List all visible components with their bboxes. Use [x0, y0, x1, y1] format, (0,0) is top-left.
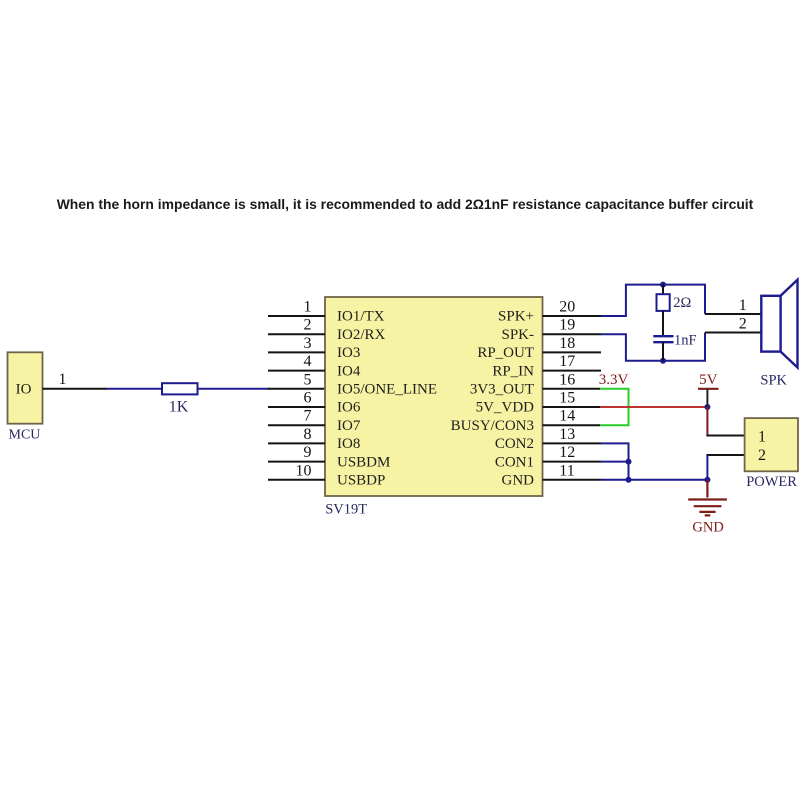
- svg-text:1: 1: [758, 429, 766, 446]
- wire speaker pin 1 stub: [705, 313, 761, 315]
- IC U1 SV19T body: [325, 297, 543, 496]
- svg-text:1K: 1K: [169, 399, 189, 416]
- wire MCU pin stub: [43, 388, 108, 390]
- wire pin 9 stub: [268, 461, 325, 463]
- svg-text:1nF: 1nF: [674, 333, 697, 349]
- svg-text:POWER: POWER: [746, 474, 797, 490]
- svg-text:2: 2: [739, 316, 747, 333]
- junction 5V node: [704, 404, 710, 410]
- svg-text:6: 6: [304, 390, 312, 407]
- wire 5V node down to POWER pin 1: [706, 407, 708, 436]
- svg-text:10: 10: [296, 462, 312, 479]
- svg-text:5V: 5V: [699, 372, 718, 388]
- svg-text:IO8: IO8: [337, 436, 360, 452]
- wire net 3V3 green bracket (pin 16 to pin 14): [600, 389, 629, 425]
- wire pin 19 stub: [543, 333, 602, 335]
- junction SPK- rail: [660, 358, 666, 364]
- wire net CON2 (pin 13 down): [601, 443, 629, 479]
- wire pin 15 stub: [543, 406, 601, 408]
- wire net SPK+ (pin 20 to top rail to speaker pin 1): [601, 285, 705, 316]
- wire R1 to IC pin 5: [198, 388, 271, 390]
- wire net SPK- (pin 19 to bottom rail to speaker pin 2): [601, 333, 705, 361]
- svg-text:SPK+: SPK+: [498, 309, 534, 325]
- svg-text:GND: GND: [502, 473, 535, 489]
- wire net CON1 (pin 12): [601, 461, 629, 463]
- wire pin 16 stub: [543, 388, 601, 390]
- svg-text:3V3_OUT: 3V3_OUT: [470, 382, 534, 398]
- junction CON1 node: [626, 459, 632, 465]
- svg-text:16: 16: [559, 371, 575, 388]
- wire pin 6 stub: [268, 406, 325, 408]
- svg-text:19: 19: [559, 317, 575, 334]
- svg-text:2: 2: [758, 447, 766, 464]
- svg-text:7: 7: [304, 408, 312, 425]
- svg-text:8: 8: [304, 426, 312, 443]
- svg-text:USBDP: USBDP: [337, 473, 385, 489]
- ground symbol GND: [688, 480, 727, 516]
- svg-text:IO1/TX: IO1/TX: [337, 309, 385, 325]
- wire C1 to bottom rail: [662, 342, 664, 361]
- power symbol 5V: [698, 372, 719, 407]
- junction GND row left: [626, 477, 632, 483]
- connector MCU (pin IO): [8, 352, 43, 423]
- svg-text:13: 13: [559, 426, 575, 443]
- wire pin 2 stub: [268, 333, 325, 335]
- wire pin 7 stub: [268, 424, 325, 426]
- svg-text:MCU: MCU: [9, 428, 41, 443]
- wire speaker pin 2 stub: [705, 332, 761, 334]
- wire pin 1 stub: [268, 315, 325, 317]
- wire pin 17 stub: [543, 370, 602, 372]
- svg-text:IO: IO: [16, 382, 32, 398]
- wire POWER pin 2 to GND node: [706, 455, 708, 480]
- svg-text:3: 3: [304, 335, 312, 352]
- svg-text:20: 20: [559, 299, 575, 316]
- svg-text:18: 18: [559, 335, 575, 352]
- wire pin 8 stub: [268, 442, 325, 444]
- svg-text:12: 12: [559, 444, 575, 461]
- wire POWER pin 2 stub: [706, 454, 744, 456]
- junction GND node: [704, 477, 710, 483]
- capacitor C1 1nF: [653, 336, 673, 342]
- speaker LS1 symbol: [761, 280, 797, 368]
- svg-text:14: 14: [559, 408, 575, 425]
- svg-text:RP_OUT: RP_OUT: [477, 345, 534, 361]
- svg-text:2: 2: [304, 317, 312, 334]
- wire pin 18 stub: [543, 351, 602, 353]
- svg-text:CON1: CON1: [495, 454, 534, 470]
- resistor R2 2ohm: [657, 294, 670, 311]
- resistor R1 1K: [162, 383, 198, 394]
- svg-text:1: 1: [739, 297, 747, 314]
- svg-text:3.3V: 3.3V: [599, 372, 629, 388]
- wire rail to R2: [662, 285, 664, 295]
- wire pin 11 stub: [543, 479, 602, 481]
- svg-text:SPK: SPK: [760, 373, 787, 389]
- wire MCU to R1: [107, 388, 162, 390]
- wire pin 4 stub: [268, 370, 325, 372]
- wire pin 20 stub: [543, 315, 602, 317]
- wire R2 to C1: [662, 311, 664, 336]
- svg-text:15: 15: [559, 390, 575, 407]
- svg-text:2Ω: 2Ω: [673, 295, 691, 311]
- svg-text:IO4: IO4: [337, 363, 361, 379]
- wire pin 10 stub: [268, 479, 325, 481]
- wire pin 14 stub: [543, 424, 601, 426]
- svg-text:5V_VDD: 5V_VDD: [476, 400, 534, 416]
- svg-text:5: 5: [304, 371, 312, 388]
- svg-text:17: 17: [559, 353, 575, 370]
- svg-text:USBDM: USBDM: [337, 454, 390, 470]
- svg-text:SPK-: SPK-: [501, 327, 534, 343]
- svg-text:1: 1: [304, 299, 312, 316]
- svg-text:IO2/RX: IO2/RX: [337, 327, 386, 343]
- wire pin 5 stub: [268, 388, 325, 390]
- svg-text:GND: GND: [692, 520, 723, 536]
- svg-text:9: 9: [304, 444, 312, 461]
- svg-text:CON2: CON2: [495, 436, 534, 452]
- wire net 5V red (pin 15 to 5V symbol): [600, 406, 707, 408]
- wire pin 12 stub: [543, 461, 602, 463]
- svg-text:IO3: IO3: [337, 345, 360, 361]
- wire net GND row (pin 11 to GND node): [601, 479, 707, 481]
- svg-text:RP_IN: RP_IN: [492, 363, 534, 379]
- connector POWER: [745, 418, 798, 471]
- svg-text:1: 1: [59, 371, 67, 388]
- junction SPK+ rail: [660, 282, 666, 288]
- svg-text:IO7: IO7: [337, 418, 361, 434]
- wire pin 3 stub: [268, 351, 325, 353]
- svg-text:4: 4: [304, 353, 312, 370]
- svg-text:11: 11: [559, 462, 574, 479]
- svg-text:IO5/ONE_LINE: IO5/ONE_LINE: [337, 382, 437, 398]
- svg-text:BUSY/CON3: BUSY/CON3: [451, 418, 534, 434]
- svg-text:IO6: IO6: [337, 400, 361, 416]
- svg-text:When the horn impedance is sma: When the horn impedance is small, it is …: [57, 196, 754, 212]
- svg-text:SV19T: SV19T: [325, 502, 367, 518]
- wire pin 13 stub: [543, 442, 602, 444]
- wire POWER pin 1 stub: [706, 435, 744, 437]
